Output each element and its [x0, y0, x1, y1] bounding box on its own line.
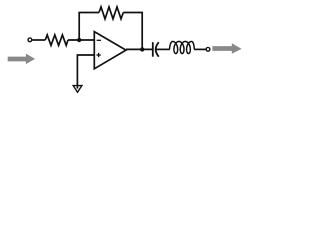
- capacitor C1 left plate: [152, 42, 154, 57]
- wire capacitor to inductor: [156, 48, 170, 50]
- wire feedback left vertical: [79, 13, 99, 41]
- node A (junction dot at inverting input): [77, 38, 81, 42]
- op-amp minus label: [97, 39, 101, 41]
- inductor L1 coil: [170, 41, 195, 53]
- input terminal: [28, 38, 32, 42]
- wire op-amp output: [126, 48, 152, 50]
- wire inductor to output terminal: [194, 48, 206, 50]
- output signal arrow (gray): [212, 43, 241, 53]
- output terminal: [206, 47, 210, 51]
- wire R1 to op-amp inverting input: [68, 39, 94, 41]
- node B (output junction dot): [140, 47, 144, 51]
- wire input terminal to R1: [32, 39, 45, 41]
- wire non-inverting input to ground: [77, 55, 94, 89]
- capacitor C1 right curved plate: [156, 42, 159, 57]
- resistor R2 (feedback): [99, 7, 123, 19]
- ground (open arrow): [73, 86, 82, 93]
- op-amp plus label: [96, 54, 100, 56]
- op-amp U1 triangle: [94, 32, 126, 69]
- resistor R1 (series input): [45, 35, 68, 46]
- wire feedback right vertical down to output: [123, 13, 142, 50]
- input signal arrow (gray): [8, 54, 35, 65]
